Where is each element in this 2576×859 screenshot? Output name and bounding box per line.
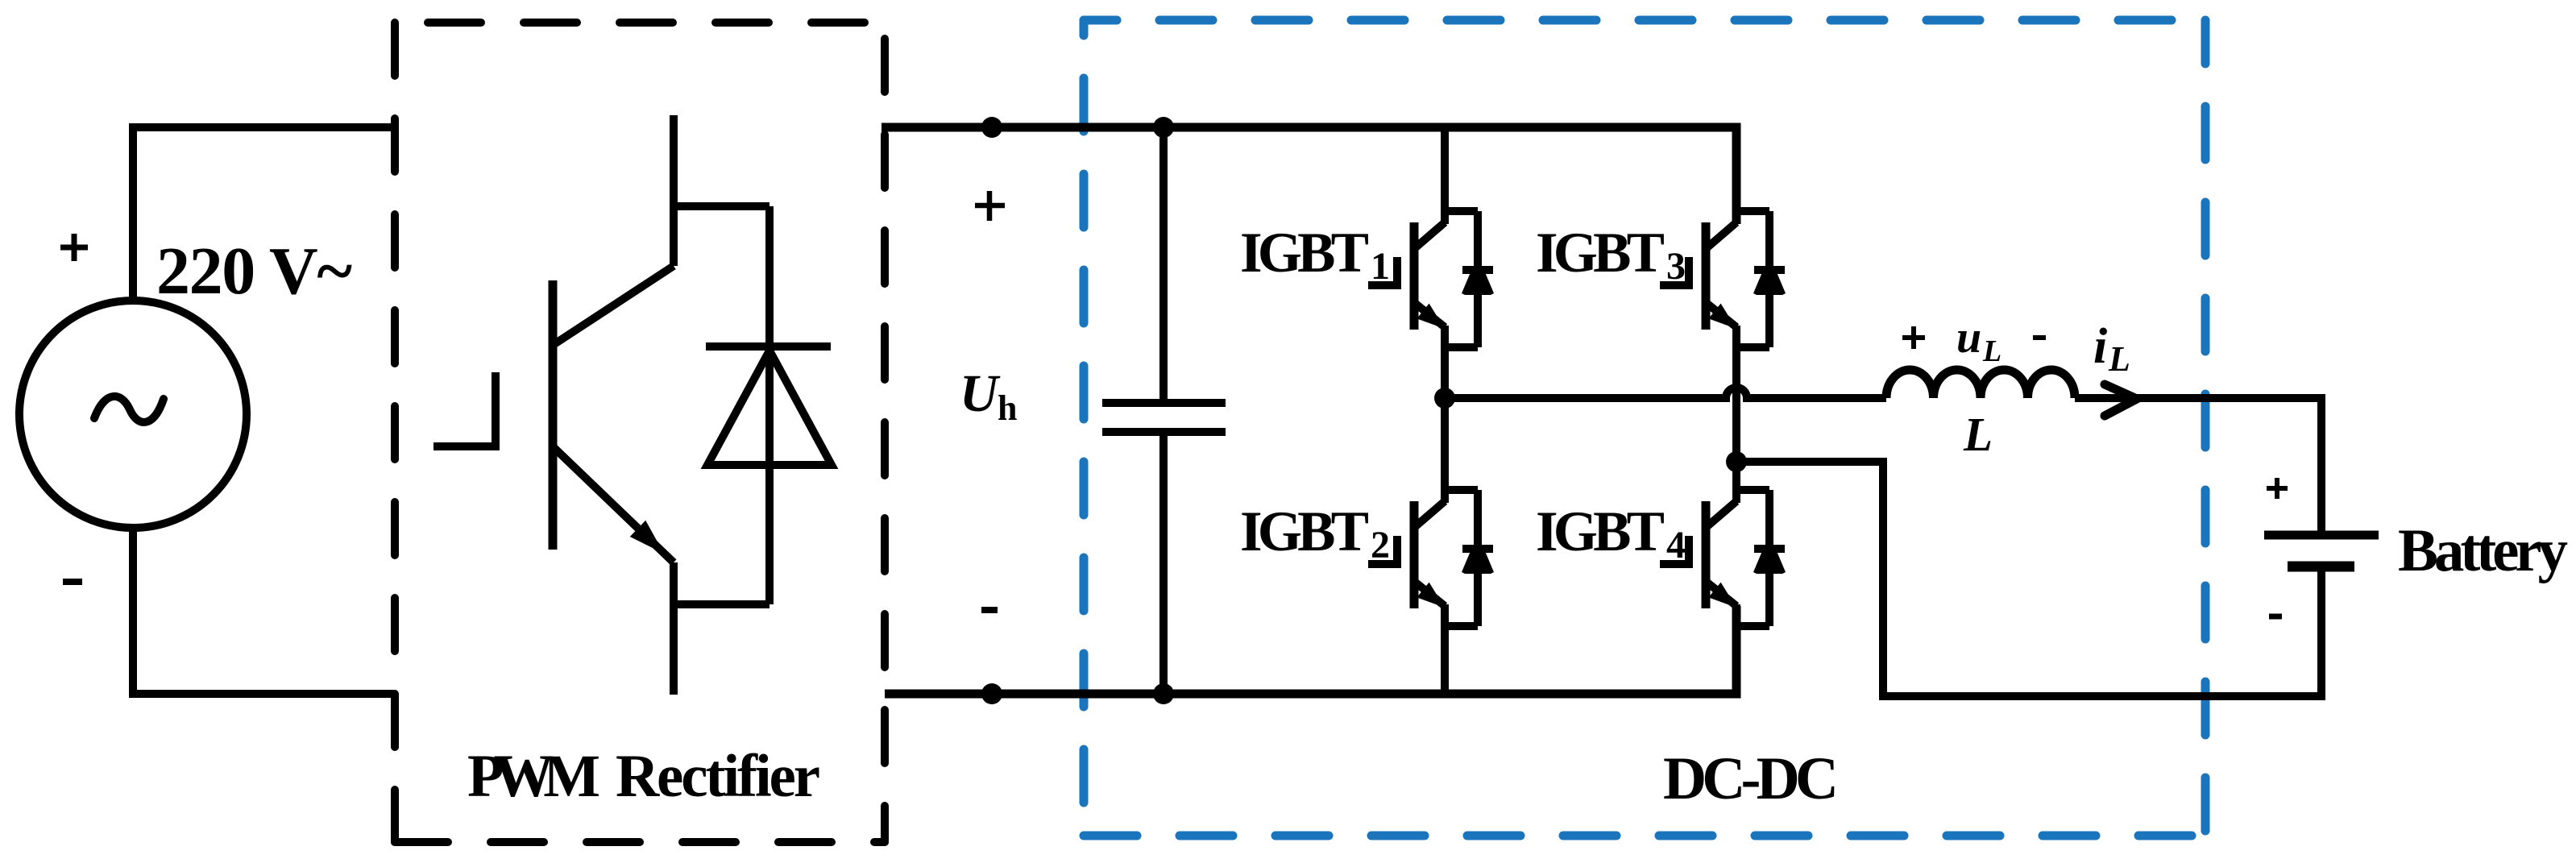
svg-text:4: 4: [1666, 524, 1686, 566]
label: AC plus sign: [60, 234, 88, 261]
transistor Q1 emitter arrowhead: [630, 521, 664, 554]
PWM Rectifier dashed box left edge: [391, 23, 399, 842]
svg-text:3: 3: [1666, 245, 1686, 288]
wire: bottom DC bus: [885, 606, 1736, 694]
label: Uh minus sign: [981, 607, 998, 613]
svg-text:IGBT: IGBT: [1240, 222, 1369, 284]
transistor IGBT3 symbol with freewheeling diode: [1660, 211, 1786, 347]
svg-text:U: U: [960, 364, 1001, 423]
capacitor C1 top wire: [1159, 127, 1168, 403]
diode D1 triangle: [707, 351, 832, 465]
transistor Q1 gate lead: [433, 372, 496, 446]
wire: top DC bus: [881, 127, 1736, 224]
transistor IGBT4 symbol with freewheeling diode: [1660, 490, 1786, 626]
inductor L: [1886, 370, 2075, 398]
AC source V1 220V circle: [19, 301, 247, 528]
battery B1 negative plate: [2288, 562, 2354, 572]
svg-text:IGBT: IGBT: [1536, 500, 1665, 563]
svg-text:220 V~: 220 V~: [156, 234, 352, 309]
DC-DC dashed box bottom edge: [1084, 832, 2205, 840]
transistor IGBT1 collector wire: [1441, 127, 1449, 224]
PWM Rectifier dashed box top edge: [395, 19, 885, 27]
wire: Q1 collector to diode D1 top: [674, 202, 769, 210]
node: DC- terminal dot: [981, 683, 1002, 704]
svg-text:2: 2: [1371, 524, 1390, 566]
transistor IGBT4 emitter wire: [1732, 604, 1740, 698]
svg-text:u: u: [1956, 313, 1981, 363]
wire: IGBT3-4 midpoint to battery negative return: [1736, 462, 2321, 696]
node: DC+ terminal dot: [981, 117, 1002, 138]
arrow: iL current direction: [2105, 384, 2137, 416]
svg-text:Battery: Battery: [2398, 517, 2568, 584]
node: capacitor top junction dot: [1153, 117, 1174, 138]
DC-DC dashed box top edge: [1084, 16, 2205, 25]
node: IGBT3-IGBT4 midpoint dot: [1726, 451, 1747, 472]
transistor Q1 emitter diagonal: [554, 448, 674, 562]
label: inductor minus sign: [2033, 335, 2046, 340]
capacitor C1 bottom plate: [1102, 428, 1226, 436]
transistor Q1 collector diagonal: [554, 266, 674, 344]
DC-DC dashed box right edge: [2201, 20, 2210, 836]
svg-text:L: L: [2108, 339, 2130, 379]
diode D1 vertical wire: [765, 206, 774, 604]
label: inductor plus sign: [1902, 326, 1925, 349]
transistor Q1 PWM rectifier IGBT collector wire: [670, 115, 678, 266]
wire: midpoint to inductor with crossover hop: [1445, 388, 1886, 398]
svg-text:Rectifier: Rectifier: [616, 743, 820, 810]
label: Uh plus sign: [975, 191, 1005, 221]
svg-text:IGBT: IGBT: [1536, 222, 1665, 284]
wire: AC source top to PWM box: [133, 127, 395, 301]
transistor IGBT2 symbol with freewheeling diode: [1368, 490, 1494, 626]
PWM Rectifier dashed box right edge: [881, 23, 889, 842]
capacitor C1 top plate: [1102, 399, 1226, 407]
svg-text:L: L: [1982, 334, 2001, 368]
svg-text:i: i: [2093, 319, 2107, 374]
transistor IGBT3 collector wire: [1732, 127, 1740, 224]
node: capacitor bottom junction dot: [1153, 683, 1174, 704]
capacitor C1 bottom wire: [1159, 432, 1168, 694]
DC-DC dashed box left edge: [1080, 20, 1089, 836]
wire: inductor to battery positive: [2075, 398, 2321, 535]
battery B1 positive plate: [2264, 531, 2379, 540]
AC source sine tilde symbol: [94, 396, 164, 422]
svg-text:DC-DC: DC-DC: [1663, 745, 1839, 812]
transistor IGBT4 collector wire: [1732, 458, 1740, 503]
label: battery plus sign: [2267, 478, 2288, 499]
svg-text:1: 1: [1371, 245, 1390, 288]
label: AC minus sign: [63, 579, 82, 585]
svg-text:L: L: [1963, 408, 1993, 461]
wire: AC source bottom to PWM box: [133, 528, 395, 694]
transistor IGBT2 collector wire: [1441, 394, 1449, 503]
svg-text:IGBT: IGBT: [1240, 500, 1369, 563]
transistor IGBT1 symbol with freewheeling diode: [1368, 211, 1494, 347]
svg-text:h: h: [998, 388, 1017, 428]
PWM Rectifier dashed box bottom edge: [395, 838, 885, 846]
node: IGBT1-IGBT2 midpoint dot: [1434, 388, 1455, 409]
transistor IGBT3 emitter wire: [1732, 326, 1740, 466]
label: battery minus sign: [2269, 614, 2282, 620]
transistor IGBT1 emitter wire: [1441, 326, 1449, 402]
transistor Q1 body bar: [549, 280, 558, 550]
diode D1 cathode bar: [706, 342, 831, 351]
transistor Q1 emitter wire: [670, 562, 678, 695]
svg-text:PWM: PWM: [467, 743, 600, 810]
transistor IGBT2 emitter wire: [1441, 604, 1449, 698]
wire: Q1 emitter to diode D1 bottom: [674, 600, 769, 608]
